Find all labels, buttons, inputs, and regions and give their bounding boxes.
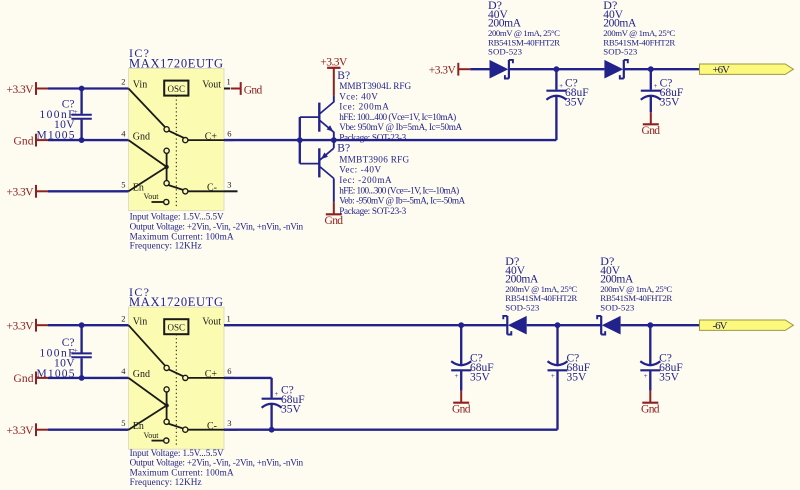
pin 1 Vout stub (top) [224,88,230,90]
capacitor C? 68uF middle (bottom) [548,361,568,380]
svg-text:+: + [551,372,555,380]
transistor B? MMBT3904L labels [337,70,462,142]
svg-text:B?: B? [337,143,350,155]
pin name C+ (bottom) [205,369,218,380]
pin number 3 (top) [227,180,231,190]
IC description text (bottom) [130,448,304,487]
svg-text:3: 3 [227,418,231,428]
svg-text:35V: 35V [565,97,586,109]
capacitor C? 68uF first labels (bottom) [470,353,494,384]
capacitor C? 100nF top lead (bottom) [80,325,82,352]
capacitor C? 68uF first bottom lead (bottom) [460,370,462,390]
IC IC? value MAX1720EUTG (bottom) [129,295,223,309]
svg-text:35V: 35V [281,403,302,415]
junction at Gnd / cap (top) [79,137,85,143]
IC IC? reference label (top) [129,46,149,60]
capacitor C? 68uF last (bottom) [640,361,660,380]
wire En +3.3V to En pin (bottom) [48,429,129,431]
wire Gnd to Gnd pin (top) [48,139,129,141]
junction at flying-chain cap (bottom) [555,322,561,328]
svg-text:Gnd: Gnd [133,369,150,380]
power Gnd at output cap (top) [642,112,661,137]
svg-text:MMBT3904L RFG: MMBT3904L RFG [339,81,411,91]
capacitor C? 68uF flying (top) [546,82,566,100]
junction at flying cap top (top) [554,66,560,72]
switch: Vin diagonal to top switch (top) [129,89,166,128]
svg-text:Frequency: 12KHz: Frequency: 12KHz [130,241,202,251]
wire En +3.3V to En pin (top) [48,190,129,192]
wire between diodes (bottom) [527,324,602,326]
IC IC? reference label (bottom) [129,285,149,299]
capacitor C? 68uF middle labels (bottom) [567,353,591,384]
power Gnd at PNP collector [325,202,344,227]
svg-text:hFE: 100...300 (Vce=-1V, Ic=-1: hFE: 100...300 (Vce=-1V, Ic=-10mA) [339,185,459,195]
svg-text:MAX1720EUTG: MAX1720EUTG [129,295,223,309]
pin number 3 (bottom) [227,418,231,428]
junction at +3.3V / cap (top) [79,86,85,92]
capacitor C? 100nF top lead (top) [80,89,82,114]
transistor B? MMBT3906 labels [337,143,465,216]
svg-text:OSC: OSC [168,322,186,332]
svg-text:6: 6 [227,366,231,376]
svg-text:Ice: 200mA: Ice: 200mA [339,102,389,112]
switch: Gnd diagonal to center node (bottom) [129,378,167,406]
svg-text:Package: SOT-23-3: Package: SOT-23-3 [339,133,406,143]
diode D? RB541SM first (top) [490,60,513,79]
svg-text:+3.3V: +3.3V [7,425,35,437]
svg-text:+: + [274,390,278,398]
switch: center vertical with contacts (bottom) [164,387,169,425]
power +3.3V at NPN collector [320,56,348,95]
pin 6 C+ stub (bottom) [224,377,234,379]
svg-text:Gnd: Gnd [642,125,661,137]
svg-text:Vbe: 950mV @ Ib=5mA, Ic=50mA: Vbe: 950mV @ Ib=5mA, Ic=50mA [339,122,462,132]
junction at +3.3V / cap (bottom) [79,322,85,328]
svg-text:+: + [455,372,459,380]
pin name C- (top) [207,183,217,194]
oscillator OSC box inside IC (top) [164,81,188,96]
capacitor C? 100nF (top) [71,108,91,119]
svg-text:+: + [559,82,563,90]
switch: top blade and contacts (bottom) [164,365,224,380]
dotted divider line inside IC (bottom) [175,334,177,445]
svg-text:Iec: -200mA: Iec: -200mA [339,175,392,185]
svg-text:5: 5 [121,180,125,190]
capacitor C? 68uF output (top) [641,82,661,100]
power +3.3V at diode rail (top) [429,63,471,77]
switch: Vin diagonal to top switch (bottom) [129,325,166,366]
pin number 6 (top) [227,128,231,138]
diode D? RB541SM second (top) [604,60,627,79]
svg-text:Gnd: Gnd [14,135,34,147]
power +3.3V at En (top) [7,185,49,199]
junction at last output cap (bottom) [647,322,653,328]
pin name En (top) [133,183,144,194]
diode D? labels second (bottom) [600,254,672,313]
svg-text:OSC: OSC [168,84,186,94]
transistor B? MMBT3906 PNP [300,140,334,202]
junction at transistor bases (top) [297,137,303,143]
svg-text:Gnd: Gnd [133,131,150,142]
svg-text:Input Voltage: 1.5V...5.5V: Input Voltage: 1.5V...5.5V [130,212,224,222]
svg-text:-6V: -6V [713,320,728,332]
wire second diode to -6V flag (bottom) [621,324,700,326]
pin number 2 (bottom) [121,313,125,323]
svg-text:SOD-523: SOD-523 [488,47,523,57]
svg-text:Vce: 40V: Vce: 40V [339,91,378,101]
capacitor C? 100nF (bottom) [71,346,91,357]
svg-text:3: 3 [227,180,231,190]
svg-text:35V: 35V [470,371,491,383]
pin number 1 (top) [227,77,231,87]
svg-text:Gnd: Gnd [244,85,263,97]
oscillator OSC box inside IC (bottom) [164,319,188,334]
transistor B? MMBT3904L NPN [300,95,334,163]
capacitor C? 68uF flying labels (top) [565,78,589,109]
power Gnd at last cap (bottom) [641,391,660,416]
svg-text:+3.3V: +3.3V [7,84,35,96]
svg-text:Vin: Vin [133,80,147,91]
capacitor C? 68uF first (bottom) [451,361,471,380]
net flag +6V output [700,64,794,76]
capacitor C? 68uF flying bottom lead (bottom) [270,404,272,430]
wire C+ pin to flying cap (bottom) [224,378,272,398]
svg-text:+3.3V: +3.3V [7,321,35,333]
capacitor C? 68uF middle bottom lead to C- (bottom) [272,370,558,429]
pin 6 C+ stub (top) [224,139,234,141]
capacitor C? 68uF last bottom lead (bottom) [649,370,651,390]
power Gnd at first cap (bottom) [452,391,471,416]
svg-text:5: 5 [121,418,125,428]
svg-text:Vout: Vout [144,431,160,440]
pin 5 En stub (top) [119,190,128,192]
svg-text:Gnd: Gnd [325,215,344,227]
capacitor C? 100nF labels (bottom) [37,337,76,380]
pin 4 Gnd stub (top) [119,139,128,141]
pin number 5 (bottom) [121,418,125,428]
internal Vout pin with contact (top) [144,192,169,204]
svg-text:SOD-523: SOD-523 [505,302,540,312]
svg-text:+3.3V: +3.3V [7,187,35,199]
svg-text:35V: 35V [567,371,588,383]
pin number 4 (top) [121,128,126,138]
capacitor C? 68uF flying top lead (top) [555,69,557,89]
net flag -6V output [700,320,794,332]
diode D? RB541SM first (bottom) [503,316,526,335]
svg-text:Output Voltage: +2Vin, -Vin, -: Output Voltage: +2Vin, -Vin, -2Vin, +nVi… [130,458,304,468]
svg-text:2: 2 [121,77,125,87]
capacitor C? 68uF output bottom lead (top) [650,96,652,112]
capacitor C? 68uF first top lead (bottom) [460,325,462,365]
power Gnd at Vout pin 1 (top) [231,82,263,96]
diode D? labels first (top) [488,0,560,57]
svg-text:Input Voltage: 1.5V...5.5V: Input Voltage: 1.5V...5.5V [130,448,224,458]
pin name C- (bottom) [207,421,217,432]
capacitor C? 68uF last labels (bottom) [659,353,683,384]
capacitor C? 68uF flying labels (bottom) [281,385,305,416]
power Gnd at left (top) [14,134,49,148]
svg-text:Package: SOT-23-3: Package: SOT-23-3 [339,206,406,216]
capacitor C? 100nF labels (top) [37,99,76,142]
wire +3.3V to Vin pin (bottom) [48,324,129,326]
diode D? labels first (bottom) [505,254,577,313]
pin 3 C- stub (top) [224,190,238,192]
switch: bottom blade and contacts (bottom) [168,424,224,433]
pin 5 En stub (bottom) [119,429,128,431]
svg-text:+3.3V: +3.3V [320,56,348,68]
svg-text:6: 6 [227,128,231,138]
svg-text:Gnd: Gnd [14,373,34,385]
capacitor C? 100nF bottom lead (bottom) [80,358,82,378]
svg-text:hFE: 100...400 (Vce=1V, Ic=10m: hFE: 100...400 (Vce=1V, Ic=10mA) [339,112,456,122]
pin number 1 (bottom) [227,313,231,323]
svg-text:+3.3V: +3.3V [429,65,457,77]
svg-text:Vout: Vout [144,192,160,201]
pin 3 C- stub (bottom) [224,429,238,431]
power +3.3V at Vin (top) [7,82,49,96]
switch: center vertical with contacts (top) [164,148,169,186]
IC IC? MAX1720EUTG body (top) [129,69,225,211]
svg-text:Gnd: Gnd [641,403,660,415]
internal Vout pin with contact (bottom) [144,431,169,443]
svg-text:SOD-523: SOD-523 [603,47,638,57]
svg-text:Vout: Vout [202,316,221,327]
pin 1 Vout stub (bottom) [224,324,230,326]
pin number 5 (top) [121,180,125,190]
svg-text:Frequency: 12KHz: Frequency: 12KHz [130,477,202,487]
junction at output cap (top) [648,66,654,72]
svg-text:MAX1720EUTG: MAX1720EUTG [129,57,223,71]
diode D? RB541SM second (bottom) [597,316,620,335]
capacitor C? 68uF output labels (top) [660,78,684,109]
junction at first output cap (bottom) [458,322,464,328]
dotted divider line inside IC (top) [175,96,177,207]
pin number 2 (top) [121,77,125,87]
pin name Vout (bottom) [202,316,221,327]
capacitor C? 68uF flying (bottom) [262,390,282,408]
svg-text:1: 1 [227,77,231,87]
svg-text:35V: 35V [660,97,681,109]
pin name En (bottom) [133,421,144,432]
svg-text:Vin: Vin [133,316,147,327]
wire D? cathode to D? anode (top) [509,68,604,70]
IC description text (top) [130,212,304,251]
svg-text:Veb: -950mV @ Ib=-5mA, Ic=-50m: Veb: -950mV @ Ib=-5mA, Ic=-50mA [339,196,465,206]
power Gnd at left (bottom) [14,372,49,386]
svg-text:Vout: Vout [202,80,221,91]
pin name C+ (top) [205,131,218,142]
svg-text:SOD-523: SOD-523 [600,302,635,312]
svg-text:Output Voltage: +2Vin, -Vin, -: Output Voltage: +2Vin, -Vin, -2Vin, +nVi… [130,222,304,232]
wire D? cathode to +6V flag (top) [624,68,699,70]
IC IC? MAX1720EUTG body (bottom) [129,307,225,449]
power +3.3V at En (bottom) [7,423,49,437]
capacitor C? 68uF output top lead (top) [650,69,652,89]
junction at Gnd / cap (bottom) [79,375,85,381]
junction at transistor emitters (top) [331,137,337,143]
svg-text:35V: 35V [659,371,680,383]
pin number 6 (bottom) [227,366,231,376]
pin 4 Gnd stub (bottom) [119,377,128,379]
pin number 4 (bottom) [121,366,126,376]
pin 2 Vin stub (bottom) [119,324,128,326]
wire C- pin to junction (bottom) [224,429,272,431]
svg-text:1: 1 [227,313,231,323]
IC IC? value MAX1720EUTG (top) [129,57,223,71]
svg-text:Vec: -40V: Vec: -40V [339,165,381,175]
power +3.3V at Vin (bottom) [7,319,49,333]
switch: Gnd diagonal to center node (top) [129,140,167,167]
svg-text:+: + [644,372,648,380]
capacitor C? 68uF last top lead (bottom) [649,325,651,365]
pin 2 Vin stub (top) [119,88,128,90]
switch: bottom blade and contacts (top) [168,185,224,194]
svg-text:MMBT3906 RFG: MMBT3906 RFG [339,154,409,164]
junction at C- line (bottom) [269,427,275,433]
wire Gnd to Gnd pin (bottom) [48,377,129,379]
wire +3.3V to Vin pin (top) [48,87,129,89]
svg-text:2: 2 [121,313,125,323]
pin name Vout (top) [202,80,221,91]
pin name Vin (bottom) [133,316,147,327]
svg-text:Gnd: Gnd [452,403,471,415]
wire Vout pin 1 to first diode (bottom) [224,324,507,326]
diode D? labels second (top) [603,0,675,57]
svg-text:+: + [654,82,658,90]
pin name Gnd (top) [133,131,150,142]
capacitor C? 68uF middle top lead (bottom) [556,325,558,365]
switch: top blade and contacts (top) [164,127,224,143]
wire +3.3V to diode D? anode (top) [470,68,489,70]
switch: En diagonal to center node (bottom) [129,406,167,430]
pin name Vin (top) [133,80,147,91]
capacitor C? 100nF bottom lead (top) [80,120,82,141]
switch: En diagonal to center node (top) [129,167,167,191]
svg-text:+6V: +6V [713,64,731,76]
pin name Gnd (bottom) [133,369,150,380]
wire C+ pin 6 to flying cap (top) [224,96,556,140]
